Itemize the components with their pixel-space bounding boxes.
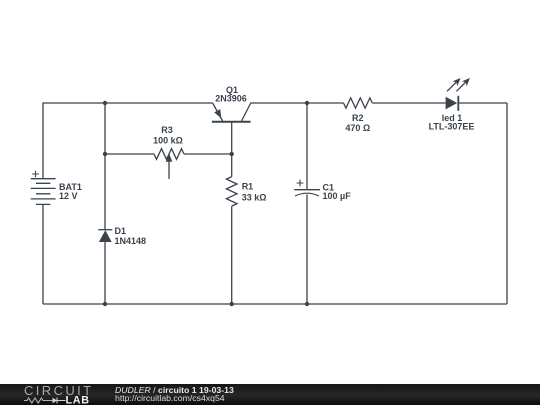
junction node C1 top	[305, 101, 309, 105]
svg-text:33 kΩ: 33 kΩ	[242, 193, 267, 203]
svg-text:LTL-307EE: LTL-307EE	[429, 122, 475, 132]
junction node bottom D1	[103, 302, 107, 306]
resistor R1 zigzag	[226, 177, 237, 206]
wire R3 right	[184, 153, 232, 155]
capacitor C1 plus sign	[297, 180, 304, 187]
junction node bottom R1	[230, 302, 234, 306]
logo diode triangle	[53, 398, 58, 404]
wire R1 bottom	[231, 206, 233, 304]
resistor R2 zigzag	[344, 98, 373, 108]
logo diode bar and wire	[57, 398, 66, 404]
LED light arrow 2 line	[456, 82, 466, 91]
credit line 1	[115, 385, 234, 395]
svg-text:R2: R2	[352, 113, 364, 123]
svg-text:LAB: LAB	[66, 395, 90, 405]
svg-text:R3: R3	[161, 125, 173, 135]
logo resistor zigzag	[24, 398, 53, 403]
wire LED to right	[458, 102, 507, 104]
wire D1 branch bottom	[104, 242, 106, 304]
R3 wiper arrowhead	[166, 153, 172, 162]
battery BAT1 plates	[31, 179, 56, 205]
credit line 2	[115, 393, 225, 403]
CircuitLab logo resistor+diode+LAB	[23, 394, 95, 405]
resistor R3 zigzag	[154, 149, 184, 160]
svg-text:12 V: 12 V	[59, 191, 78, 201]
diode D1 cathode bar	[98, 229, 112, 231]
wire bottom rail	[43, 303, 507, 305]
svg-text:R1: R1	[242, 182, 254, 192]
transistor Q1 emitter wire	[213, 103, 223, 121]
svg-text:100 kΩ: 100 kΩ	[153, 136, 183, 146]
capacitor C1 bottom curved plate	[295, 193, 319, 196]
svg-text:100 µF: 100 µF	[323, 191, 352, 201]
LED cathode bar	[457, 96, 459, 111]
diode D1 triangle	[99, 230, 112, 242]
battery plus sign	[32, 171, 39, 178]
wire C1 bottom	[306, 195, 308, 305]
junction node R3 left	[103, 152, 107, 156]
CircuitLab logo wordmark	[24, 384, 94, 397]
LED light arrow 1 line	[447, 82, 457, 91]
svg-text:470 Ω: 470 Ω	[345, 123, 370, 133]
wire R2 to LED	[372, 102, 445, 104]
wire R3 left	[105, 153, 154, 155]
LED triangle	[446, 97, 458, 110]
junction node bottom C1	[305, 302, 309, 306]
svg-text:1N4148: 1N4148	[115, 236, 147, 246]
svg-text:2N3906: 2N3906	[215, 94, 247, 104]
wire battery bottom to rail	[42, 204, 44, 304]
LED arrow 1 head	[452, 78, 460, 86]
LED arrow 2 head	[462, 78, 470, 86]
svg-text:D1: D1	[115, 226, 127, 236]
junction node top-left	[103, 101, 107, 105]
transistor Q1 collector wire	[242, 103, 344, 121]
wire top rail left	[43, 103, 213, 179]
transistor Q1 base bar	[212, 121, 251, 123]
Q1 emitter arrowhead	[214, 109, 221, 118]
junction node R3 right	[230, 152, 234, 156]
wire D1 branch top	[104, 103, 106, 230]
wire base down	[231, 122, 233, 177]
wire C1 top	[306, 103, 308, 190]
wire right side	[506, 103, 508, 304]
R3 wiper stem	[168, 162, 170, 179]
capacitor C1 top plate	[294, 189, 320, 191]
